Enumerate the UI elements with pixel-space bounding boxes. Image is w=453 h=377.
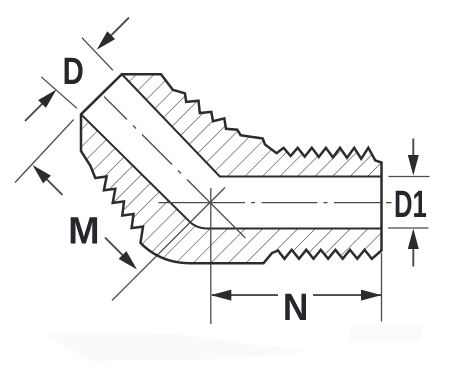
D lower extension bbox=[41, 77, 77, 109]
vertical line from center (N left extension) bbox=[210, 188, 212, 324]
bore white band fill bbox=[81, 74, 382, 228]
svg-text:N: N bbox=[283, 286, 309, 328]
N dim line left + arrow bbox=[212, 294, 278, 296]
diagonal centerline (dash-dot) bbox=[104, 97, 245, 238]
D1 extension upper bbox=[389, 176, 430, 178]
M dim arrow upper bbox=[40, 173, 63, 196]
D1 arrow bottom bbox=[412, 232, 414, 267]
D dim arrow lower bbox=[25, 96, 50, 121]
faint watermark bottom-left bbox=[46, 334, 310, 361]
body outline on top bbox=[81, 74, 382, 263]
M extension line 2 (center plane, 45deg through center) bbox=[112, 188, 225, 301]
D1 extension lower bbox=[388, 227, 429, 229]
svg-text:D: D bbox=[63, 50, 84, 92]
D1 arrow top bbox=[412, 139, 414, 173]
M dim arrow lower bbox=[105, 238, 130, 263]
svg-text:D1: D1 bbox=[394, 183, 427, 225]
bore edge upper bbox=[122, 74, 382, 176]
M extension line 1 (end face extended) bbox=[15, 120, 74, 183]
svg-text:M: M bbox=[68, 210, 100, 252]
D dim arrow upper bbox=[103, 18, 129, 44]
N dim line right + arrow bbox=[313, 294, 381, 296]
horizontal centerline (dash-dot) bbox=[159, 202, 392, 204]
D upper extension bbox=[82, 38, 113, 71]
body cross-section hatch fill (45deg elbow fitting) bbox=[81, 74, 382, 263]
N right extension (end face extended down) bbox=[381, 253, 383, 322]
bore edge lower with fillet bbox=[81, 114, 382, 228]
faint box bottom-right bbox=[350, 324, 422, 342]
